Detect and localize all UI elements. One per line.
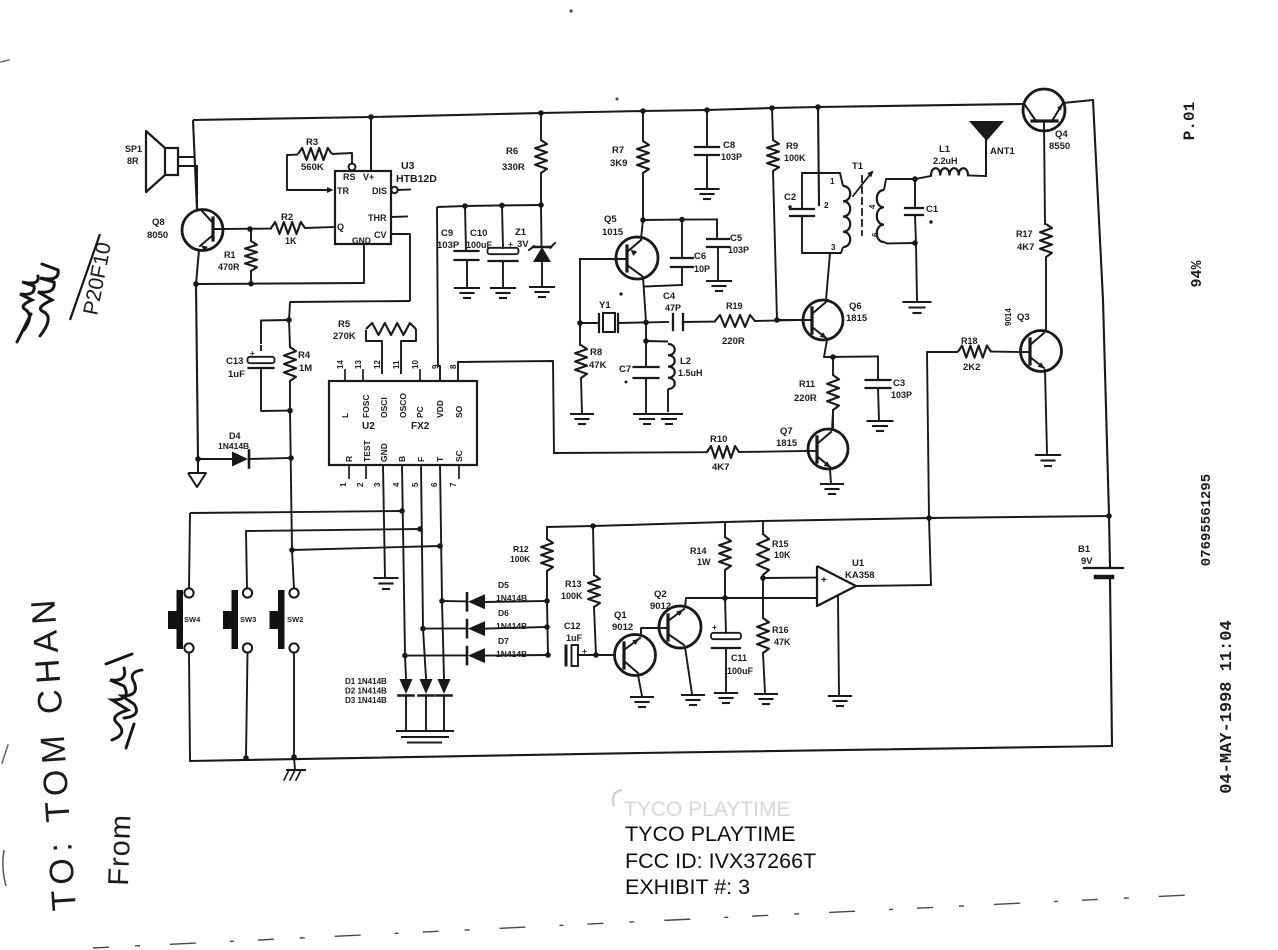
- ground C3: [868, 420, 893, 422]
- svg-text:EXHIBIT #: 3: EXHIBIT #: 3: [625, 875, 750, 899]
- svg-text:3V: 3V: [517, 239, 529, 250]
- inductor L2 1.5uH: [646, 340, 668, 343]
- svg-text:11: 11: [392, 360, 401, 369]
- svg-text:+: +: [250, 349, 255, 358]
- diode D7 1N4148 row: [405, 654, 466, 656]
- svg-text:103P: 103P: [728, 245, 749, 255]
- wire Q5 collector node to C7/L2: [645, 322, 647, 341]
- svg-text:R4: R4: [298, 350, 311, 361]
- pin CV wire U3 to C13 node: [391, 234, 410, 301]
- svg-text:F: F: [416, 457, 426, 462]
- wire SW4 bottom to rail: [189, 653, 190, 761]
- capacitor C7: [645, 341, 647, 367]
- wire top supply rail: [193, 104, 1023, 120]
- svg-text:Q5: Q5: [604, 214, 617, 225]
- svg-text:1N414B: 1N414B: [496, 621, 527, 631]
- resistor R19 220R: [715, 315, 755, 327]
- svg-text:SW3: SW3: [240, 615, 256, 624]
- svg-text:9V: 9V: [1081, 556, 1093, 567]
- wire R4 bottom to SW2 column: [290, 411, 292, 550]
- crystal Y1: [580, 322, 599, 324]
- scan artifact left edge marks: [3, 850, 6, 886]
- wire CV node to C13/R4 top: [289, 301, 410, 320]
- U2 top pin stubs and numbers: [344, 370, 346, 381]
- IC U2 FX2 box: [329, 381, 477, 465]
- svg-text:100uF: 100uF: [466, 240, 493, 250]
- svg-text:B1: B1: [1078, 544, 1091, 555]
- pin3 GND wire down to ground: [383, 465, 385, 578]
- svg-text:OSCO: OSCO: [398, 393, 408, 418]
- pin5 F column: [421, 465, 423, 628]
- capacitor C6 10P: [681, 220, 683, 258]
- svg-text:8: 8: [449, 364, 458, 369]
- capacitor C13 1uF: [261, 320, 289, 339]
- op IC U3 HT8120 box: [335, 171, 391, 244]
- resistor R8 47K: [579, 323, 581, 345]
- svg-text:3: 3: [831, 243, 836, 252]
- svg-text:SW4: SW4: [184, 615, 201, 624]
- svg-text:2: 2: [824, 200, 829, 210]
- svg-text:2K2: 2K2: [963, 362, 980, 373]
- svg-text:100uF: 100uF: [727, 666, 754, 676]
- svg-text:R12: R12: [513, 544, 529, 554]
- wire R15/R16 node to op-amp + input: [763, 577, 817, 579]
- capacitor C11 100uF: [725, 598, 726, 633]
- svg-text:8R: 8R: [127, 156, 139, 166]
- svg-text:D5: D5: [498, 580, 509, 590]
- svg-text:C9: C9: [441, 228, 453, 239]
- resistor R18 2K2: [927, 352, 958, 518]
- svg-text:DIS: DIS: [372, 186, 387, 196]
- wire rail to T1 pin2: [818, 107, 819, 205]
- svg-text:103P: 103P: [437, 240, 460, 251]
- svg-text:R8: R8: [590, 347, 602, 358]
- ground Z1: [530, 286, 554, 288]
- svg-text:560K: 560K: [301, 162, 324, 173]
- pin8 SO wire to R10 column: [457, 362, 459, 381]
- svg-text:1N414B: 1N414B: [218, 441, 249, 451]
- svg-text:8050: 8050: [147, 230, 168, 241]
- resistor R12 100K: [546, 527, 548, 539]
- svg-text:D4: D4: [229, 431, 241, 441]
- svg-text:CV: CV: [374, 230, 387, 240]
- wire Q5 emitter node to C6/C5: [643, 218, 717, 221]
- T1 core dashed lines: [861, 176, 863, 235]
- svg-text:U3: U3: [401, 160, 415, 172]
- svg-text:103P: 103P: [891, 390, 912, 400]
- svg-text:Q: Q: [337, 222, 344, 232]
- wire R12 bottom column joining diode rows: [547, 601, 548, 655]
- ground Q7: [821, 483, 843, 485]
- svg-text:C4: C4: [663, 291, 676, 302]
- wire Q8 emitter down to rail: [196, 250, 199, 284]
- svg-text:6: 6: [430, 482, 439, 487]
- svg-text:9012: 9012: [612, 622, 633, 633]
- svg-text:P.01: P.01: [1181, 102, 1199, 140]
- ground diode matrix: [397, 730, 453, 732]
- resistor R2 1K: [223, 228, 271, 230]
- svg-text:270K: 270K: [333, 331, 356, 342]
- svg-text:5: 5: [411, 482, 420, 487]
- svg-text:V+: V+: [363, 172, 374, 182]
- svg-text:1N414B: 1N414B: [496, 593, 527, 603]
- svg-text:1: 1: [339, 482, 348, 487]
- svg-text:R17: R17: [1016, 229, 1033, 239]
- svg-text:C6: C6: [694, 251, 706, 262]
- ground C10: [491, 287, 515, 289]
- svg-text:+: +: [712, 622, 717, 632]
- switch SW4: [184, 588, 193, 597]
- resistor R13 100K: [593, 526, 594, 575]
- svg-text:SC: SC: [454, 450, 464, 462]
- svg-text:THR: THR: [368, 213, 387, 223]
- diode D6 1N4148 row: [423, 627, 466, 629]
- svg-text:10: 10: [411, 360, 420, 369]
- svg-text:1uF: 1uF: [228, 369, 245, 380]
- node secondary top: [912, 176, 918, 182]
- svg-text:4: 4: [868, 204, 877, 209]
- wire left border vertical: [193, 120, 197, 209]
- svg-text:TR: TR: [337, 186, 349, 196]
- U2 bottom pin stubs and numbers: [348, 465, 350, 478]
- transistor Q6 1815: [803, 300, 843, 340]
- pin4 B column: [402, 465, 405, 655]
- battery B1 9V: [1084, 567, 1123, 569]
- svg-text:1815: 1815: [776, 438, 798, 449]
- ground L2: [656, 413, 682, 415]
- capacitor C3 103P: [877, 356, 879, 380]
- svg-text:U1: U1: [852, 558, 865, 569]
- svg-text:TYCO PLAYTIME: TYCO PLAYTIME: [624, 798, 790, 821]
- wire T1 left loop / capacitor C2: [801, 173, 803, 209]
- capacitor C9 103P: [465, 206, 466, 251]
- diode D4 1N4148: [198, 458, 232, 460]
- pin THR stub U3: [391, 216, 407, 219]
- resistor R10 4K7: [554, 451, 707, 454]
- wire C9/C10/Z1 rail: [437, 205, 541, 207]
- transistor Q8: [182, 210, 223, 251]
- resistor R3 560K: [287, 155, 298, 190]
- svg-text:VDD: VDD: [435, 400, 445, 418]
- speaker SP1: [165, 148, 178, 175]
- capacitor C8 103P: [706, 110, 708, 147]
- ground Q3: [1036, 454, 1060, 456]
- svg-text:2.2uH: 2.2uH: [933, 156, 958, 166]
- resistor R14 1W: [724, 522, 726, 537]
- wire Q6 emitter node to C3: [824, 355, 878, 358]
- resistor R6 330R: [540, 113, 542, 140]
- wire secondary bottom to ground: [916, 243, 917, 301]
- svg-text:1: 1: [830, 177, 835, 186]
- transistor Q1 9012: [615, 635, 656, 676]
- svg-text:U2: U2: [362, 421, 375, 432]
- svg-text:TEST: TEST: [362, 439, 372, 462]
- wire R3 to U3 TR: [287, 189, 326, 191]
- inductor L1 2.2uH: [915, 176, 931, 179]
- svg-text:ANT1: ANT1: [990, 146, 1016, 157]
- wire Q5 base column to Y1 node: [579, 259, 581, 323]
- svg-text:04-MAY-1998 11:04: 04-MAY-1998 11:04: [1218, 620, 1237, 793]
- svg-text:C13: C13: [226, 356, 243, 367]
- svg-text:OSCI: OSCI: [379, 397, 389, 418]
- resistor R16 47K: [762, 578, 764, 618]
- svg-text:Y1: Y1: [599, 300, 611, 311]
- svg-text:3K9: 3K9: [610, 158, 627, 169]
- svg-text:GND: GND: [379, 443, 389, 462]
- resistor R9 100K: [772, 108, 773, 140]
- svg-text:1M: 1M: [299, 363, 312, 374]
- svg-text:T1: T1: [852, 161, 864, 172]
- svg-text:13: 13: [354, 360, 363, 369]
- svg-text:Z1: Z1: [515, 227, 527, 238]
- ground (open triangle) left border: [197, 459, 199, 473]
- svg-text:1.5uH: 1.5uH: [678, 368, 703, 378]
- pin DIS bubble and stub U3: [391, 187, 397, 193]
- pin9 VDD supply wire from C9 rail: [437, 207, 440, 381]
- svg-text:FX2: FX2: [411, 421, 430, 432]
- svg-text:94%: 94%: [1189, 260, 1206, 288]
- svg-text:R9: R9: [786, 141, 798, 152]
- svg-text:KA358: KA358: [845, 570, 875, 581]
- svg-text:1W: 1W: [697, 557, 711, 567]
- svg-text:RS: RS: [343, 172, 356, 182]
- svg-text:Q6: Q6: [849, 301, 862, 312]
- svg-text:SW2: SW2: [287, 615, 303, 624]
- diode D5 1N4148 row: [442, 600, 466, 602]
- capacitor C12 1uF electrolytic (series): [565, 646, 568, 665]
- switch SW3: [243, 588, 252, 597]
- svg-text:9014: 9014: [1004, 308, 1013, 326]
- svg-text:C11: C11: [731, 653, 747, 663]
- svg-text:R16: R16: [772, 625, 789, 635]
- antenna ANT1: [985, 140, 987, 176]
- svg-text:Q7: Q7: [780, 426, 793, 437]
- ground C9: [455, 287, 479, 289]
- transistor Q7 1815: [808, 429, 848, 469]
- svg-text:+: +: [821, 575, 827, 586]
- svg-text:FCC ID: IVX37266T: FCC ID: IVX37266T: [625, 849, 816, 873]
- svg-text:1uF: 1uF: [566, 633, 583, 643]
- ground C11: [715, 692, 737, 694]
- svg-text:D2 1N414B: D2 1N414B: [345, 687, 387, 696]
- svg-text:C8: C8: [723, 140, 735, 151]
- svg-text:Q3: Q3: [1017, 312, 1030, 323]
- svg-text:L: L: [340, 413, 350, 418]
- svg-text:R10: R10: [710, 434, 727, 445]
- wire Q8 rail to U3 GND: [196, 283, 364, 284]
- transistor Q5 1015: [616, 237, 658, 279]
- wire SW2 bottom to rail: [293, 653, 295, 757]
- transistor Q3 9014: [1021, 331, 1062, 372]
- svg-text:4K7: 4K7: [1017, 242, 1034, 253]
- svg-text:1N414B: 1N414B: [496, 649, 527, 659]
- resistor R17 4K7: [1044, 123, 1045, 224]
- svg-text:4: 4: [392, 482, 401, 487]
- ground Q1: [631, 696, 653, 698]
- svg-text:Q1: Q1: [614, 610, 627, 621]
- wire SW2 row: [292, 550, 294, 589]
- wire mid supply rail: [547, 516, 1109, 527]
- pin RS bubble U3: [349, 164, 356, 171]
- svg-text:4K7: 4K7: [712, 462, 729, 473]
- handwritten note 1 (scribble + P20F10): [17, 264, 58, 342]
- svg-text:PC: PC: [415, 406, 425, 418]
- svg-text:R18: R18: [961, 336, 978, 346]
- diode D1 D2 D3 vertical: [400, 679, 413, 694]
- svg-text:R2: R2: [281, 212, 293, 223]
- svg-text:From: From: [103, 813, 137, 886]
- resistor R11 220R: [832, 357, 834, 375]
- svg-text:6: 6: [871, 232, 880, 237]
- capacitor C1: [914, 179, 916, 208]
- ground C5: [707, 280, 731, 282]
- svg-text:1015: 1015: [602, 227, 624, 238]
- svg-text:9012: 9012: [650, 601, 671, 612]
- svg-text:47K: 47K: [589, 360, 607, 371]
- capacitor C5 103P: [716, 219, 718, 239]
- svg-text:R13: R13: [565, 579, 582, 589]
- pin GND wire U3 down to rail: [363, 244, 365, 283]
- svg-text:C1: C1: [926, 204, 939, 215]
- svg-text:R7: R7: [612, 145, 624, 156]
- svg-text:R1: R1: [224, 250, 236, 260]
- svg-text:10P: 10P: [694, 264, 710, 274]
- svg-text:8550: 8550: [1049, 141, 1070, 152]
- ground U2 pin3: [375, 577, 398, 579]
- transformer T1 primary winding: [802, 173, 843, 186]
- svg-text:C12: C12: [564, 621, 581, 631]
- svg-text:D7: D7: [498, 636, 509, 646]
- svg-text:D1 1N414B: D1 1N414B: [345, 677, 387, 686]
- svg-text:103P: 103P: [721, 152, 742, 162]
- svg-text:14: 14: [336, 360, 345, 369]
- chassis ground below rail at SW2: [294, 757, 295, 770]
- resistor R7 3K9: [642, 111, 644, 141]
- wire U1 output to mid rail: [856, 518, 931, 586]
- ground T1/C1: [904, 301, 931, 303]
- svg-text:2: 2: [356, 482, 365, 487]
- ground R8: [571, 413, 593, 415]
- svg-text:100K: 100K: [561, 591, 583, 601]
- svg-text:Q8: Q8: [152, 217, 165, 228]
- svg-text:330R: 330R: [502, 162, 525, 173]
- svg-text:3: 3: [373, 482, 382, 487]
- pin6 T column: [440, 465, 442, 601]
- svg-text:R3: R3: [306, 137, 318, 148]
- svg-text:R14: R14: [690, 546, 707, 556]
- wire bottom rail: [190, 746, 1112, 761]
- node Y1/C4 junction with Q5 collector: [643, 320, 649, 326]
- pin V+ U3 wire to rail: [370, 117, 372, 171]
- op-amp U1 KA358: [817, 566, 856, 606]
- svg-text:GND: GND: [352, 236, 371, 246]
- resistor R5 270K: [366, 330, 382, 374]
- svg-text:47K: 47K: [774, 637, 791, 647]
- transistor Q4 8550: [1023, 89, 1065, 131]
- svg-text:470R: 470R: [218, 262, 240, 272]
- wire SW3 bottom to rail: [246, 653, 248, 758]
- svg-text:1K: 1K: [285, 236, 297, 246]
- svg-text:R19: R19: [726, 301, 743, 311]
- resistor R15 10K: [762, 521, 764, 534]
- svg-text:B: B: [397, 456, 407, 462]
- svg-text:47P: 47P: [665, 303, 681, 313]
- svg-text:TYCO PLAYTIME: TYCO PLAYTIME: [625, 822, 795, 846]
- svg-text:R15: R15: [772, 539, 789, 549]
- svg-text:D3 1N414B: D3 1N414B: [345, 696, 387, 705]
- svg-text:D6: D6: [498, 608, 509, 618]
- zener diode Z1 3V: [540, 205, 543, 246]
- svg-text:T: T: [435, 456, 445, 462]
- resistor R1 470R: [250, 229, 252, 241]
- svg-text:+: +: [508, 239, 513, 249]
- resistor R4 1M: [289, 320, 290, 347]
- scan artifact dashed line: [93, 894, 1210, 948]
- node Q8 base junction: [247, 226, 253, 232]
- svg-text:R5: R5: [338, 319, 351, 330]
- T1 tuning arrow: [853, 172, 872, 196]
- wire left border Q8-rail to D4 node: [196, 284, 198, 459]
- svg-text:07695561295: 07695561295: [1199, 474, 1215, 566]
- svg-text:Q2: Q2: [654, 589, 667, 600]
- wire SW4 row: [190, 511, 402, 513]
- svg-text:R: R: [344, 456, 354, 462]
- svg-text:R6: R6: [506, 146, 518, 157]
- ground C7: [634, 413, 660, 415]
- switch SW2: [289, 588, 298, 597]
- svg-text:C7: C7: [619, 364, 631, 375]
- capacitor C10 100uF electrolytic: [502, 205, 503, 248]
- svg-text:HTB12D: HTB12D: [396, 173, 437, 185]
- transformer T1 secondary winding: [877, 190, 884, 242]
- wire C6 bottom to Q5 collector: [645, 285, 682, 287]
- ground R16: [755, 693, 777, 695]
- svg-text:C3: C3: [893, 378, 905, 389]
- svg-text:C10: C10: [470, 228, 487, 239]
- svg-text:1815: 1815: [846, 313, 868, 324]
- svg-text:220R: 220R: [794, 393, 817, 404]
- svg-text:FOSC: FOSC: [361, 394, 371, 418]
- svg-text:+: +: [582, 646, 587, 656]
- svg-text:R11: R11: [799, 379, 815, 389]
- svg-text:L2: L2: [680, 356, 691, 367]
- svg-text:7: 7: [449, 482, 458, 487]
- wire SW3 row: [246, 529, 420, 589]
- wire right border upper: [1093, 100, 1109, 516]
- ground Q2: [682, 694, 704, 696]
- ground C8: [696, 188, 719, 190]
- wire C12 to Q1 base: [596, 654, 615, 656]
- svg-text:SO: SO: [454, 405, 464, 418]
- capacitor C4 47P (series): [646, 321, 668, 323]
- ground U1: [829, 695, 851, 697]
- svg-text:100K: 100K: [510, 554, 531, 564]
- svg-text:100K: 100K: [784, 153, 806, 163]
- svg-text:10K: 10K: [774, 550, 791, 560]
- node secondary bottom: [912, 240, 918, 246]
- svg-text:SP1: SP1: [125, 144, 142, 154]
- wire T1 pin3 to Q6 collector: [830, 252, 831, 254]
- svg-text:220R: 220R: [722, 336, 745, 347]
- svg-text:L1: L1: [939, 144, 951, 155]
- transistor Q2 9012: [659, 606, 701, 648]
- svg-text:C2: C2: [784, 192, 796, 203]
- svg-text:C5: C5: [730, 233, 743, 244]
- wire right border lower (through battery): [1109, 516, 1110, 566]
- node R9/R19/Q6 base: [774, 317, 780, 323]
- svg-text:Q4: Q4: [1055, 129, 1068, 140]
- wire U1 ground stub: [838, 596, 839, 695]
